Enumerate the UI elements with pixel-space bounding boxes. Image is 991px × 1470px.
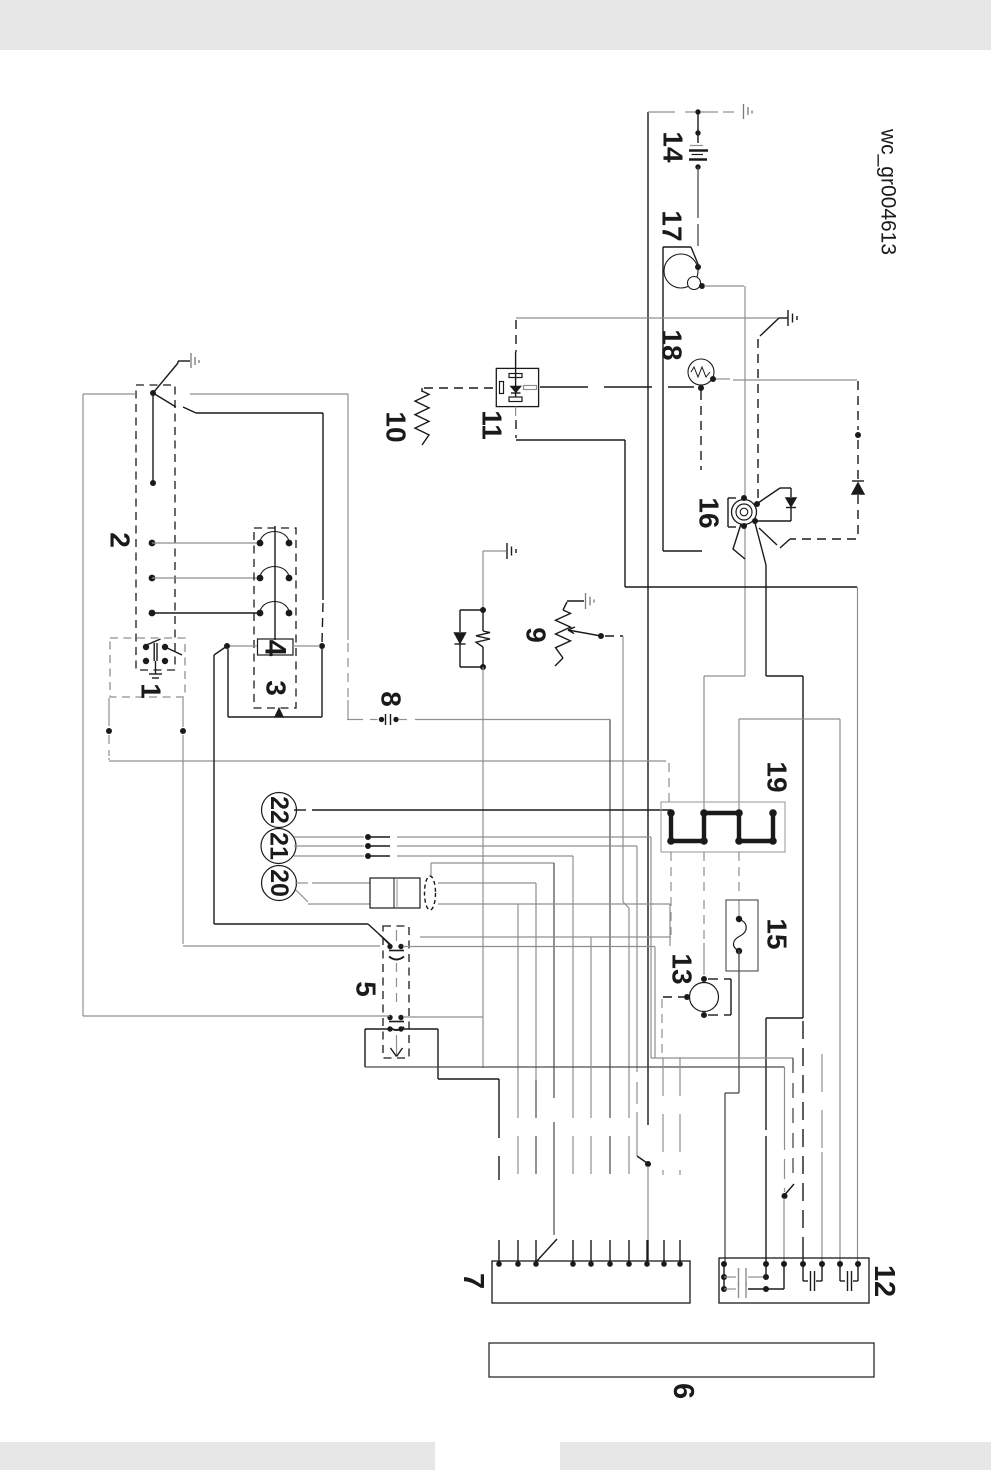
leads from igniter 16 (733, 524, 745, 559)
svg-text:12: 12 (868, 1265, 900, 1297)
wire: 19 to motor 13 (703, 900, 705, 940)
wire: row 937 drop to pin 591 (590, 937, 592, 1080)
bottom right footer bar (560, 1442, 991, 1470)
wire: 18 to right dashed diode branch (716, 378, 730, 380)
wire: dashed from ground switch down to igniter 16 (757, 339, 759, 499)
bracket below 3 (dashed with arrow) (227, 649, 229, 717)
wire: main vertical rail from battery node down to switch (647, 112, 649, 1125)
wire: gray rail jog to element 19 (704, 675, 745, 677)
wire: top rail to battery node (648, 111, 675, 113)
diode/resistor pair (480, 607, 486, 613)
motor 17 circles (664, 254, 698, 288)
ground mid left (506, 543, 508, 559)
svg-text:20: 20 (265, 869, 293, 897)
switch blade near 12 (785, 1184, 795, 1195)
arrow in 5 (396, 1035, 398, 1056)
sender 18 (688, 359, 714, 385)
blade to ground (153, 363, 178, 393)
svg-text:13: 13 (667, 953, 698, 984)
svg-text:15: 15 (762, 918, 793, 949)
bracket left of 16 (728, 497, 736, 499)
relay 1 contacts (143, 644, 149, 650)
svg-text:18: 18 (657, 329, 688, 360)
capacitor symbols right of 12 (802, 1264, 804, 1281)
wire: connector row y904 right (438, 903, 518, 905)
wire: relay 1 left leg down (108, 698, 110, 726)
flag on pin 535 (536, 1239, 557, 1262)
wire: dashed stub x822 to pin (821, 1054, 823, 1148)
wire: pair down to cap rows (482, 667, 484, 1068)
switch block 2 dashed box (136, 385, 175, 670)
svg-text:1: 1 (136, 683, 167, 699)
wire: y394 corner down to capacitor 8 (347, 394, 349, 640)
svg-text:16: 16 (694, 497, 725, 528)
thermostat 15 box (726, 900, 758, 971)
core line (274, 526, 276, 640)
ground for 9 (585, 593, 587, 609)
wire: row y413 to bracket (196, 412, 323, 414)
svg-text:22: 22 (265, 796, 293, 824)
switch blade near 7 (637, 1156, 647, 1163)
block 12 (719, 1258, 869, 1303)
svg-text:6: 6 (667, 1383, 699, 1399)
wire: row 846 corner down to switch (636, 846, 638, 1050)
wire: row y1030 (black) (365, 1028, 390, 1030)
wire: connector shield row y863 (430, 863, 432, 876)
terminal 20 (262, 866, 297, 901)
terminal 22 (262, 793, 297, 828)
capacitors in 12 (723, 1264, 725, 1289)
svg-text:5: 5 (351, 981, 382, 997)
wire: row y937 (420, 936, 671, 938)
wire: row y1058 (651, 1057, 793, 1059)
wire: connector row y883 right (438, 882, 536, 884)
coil windings (257, 540, 264, 547)
ground top left (178, 360, 190, 362)
pins of 12 (721, 1261, 727, 1267)
capacitor block 5 dashed box (383, 926, 409, 1058)
wire: branch dashed down to 12 (802, 1021, 804, 1238)
svg-text:3: 3 (261, 680, 292, 696)
svg-text:8: 8 (376, 691, 407, 707)
rows from 20 to connector (295, 882, 308, 884)
wire: long row y1067 (365, 1066, 785, 1068)
terminal strip 7 (492, 1261, 690, 1303)
ground with switch (right top) (787, 310, 789, 326)
svg-text:11: 11 (477, 410, 508, 440)
diode D (up) (852, 480, 864, 482)
motor 13 (690, 983, 719, 1012)
wire: 9 wiper to bus (605, 635, 623, 637)
wire: right rail down to block 12 (857, 587, 859, 1264)
rows from 21 (294, 836, 364, 838)
wire: bracket node down to capacitor 5 (224, 643, 230, 649)
wire: row y1067 corner down, switch (784, 1067, 786, 1130)
switch 2 common node (150, 390, 156, 396)
wire: capacitor 8 to bus (399, 719, 407, 721)
bottom left footer bar (0, 1442, 435, 1470)
element 19 meander (667, 809, 675, 817)
wire: drop to pin 680 (679, 1058, 681, 1175)
battery 14 (695, 109, 700, 114)
wire: long row y760 (108, 758, 110, 760)
switch 2 contact rows (149, 540, 156, 547)
wire: row 856 down to pin 573 (572, 856, 574, 1080)
capacitor 8 (347, 719, 363, 721)
switch in 5 (380, 935, 390, 945)
wire: jog to pin 499 (438, 1078, 499, 1080)
wire: module 11 bottom to long rail (515, 407, 517, 416)
wire from 17 to right rail (704, 285, 744, 287)
ground for battery 14 (743, 104, 745, 119)
wire: gray frame line y394 (83, 393, 136, 395)
module 11 (regulator) (496, 368, 538, 406)
igniter 16 rings (732, 500, 757, 525)
svg-text:21: 21 (265, 832, 293, 860)
capacitor in 5 (lower) (387, 1015, 392, 1020)
wire: row y904 extension (517, 903, 670, 905)
wiper arrow of 9 (568, 630, 601, 636)
wire: right gray rail down from 17 (744, 286, 746, 676)
wire: 15 down to block 12 (738, 950, 740, 1093)
wire: ground line row y318 (516, 317, 779, 319)
svg-text:17: 17 (657, 210, 688, 241)
wire: 13 dashed stub left, down to bus (663, 996, 684, 998)
svg-text:7: 7 (457, 1273, 489, 1289)
enclosure box for 17/18 (663, 246, 691, 248)
svg-text:4: 4 (259, 640, 292, 657)
wire: row 837 corner down (650, 837, 652, 1058)
svg-text:2: 2 (105, 532, 136, 548)
wire: module 11 top dashed up to ground line (515, 320, 517, 352)
diode branch (dashed) right side (857, 381, 859, 430)
svg-text:wc_gr004613: wc_gr004613 (877, 128, 900, 255)
wire: dashed drop and switch to pin 784 (792, 1058, 794, 1183)
wire: row y719 to block 12 wire (739, 718, 840, 720)
wire: row y1017 (83, 1015, 390, 1017)
potentiometer 9 (556, 610, 571, 658)
wire: row 22 (294, 809, 306, 811)
component 4 box (258, 639, 294, 655)
wire: 19 bottom right stub (738, 852, 740, 897)
top header bar (0, 0, 991, 50)
wire: battery node to ground (dashed) (701, 111, 718, 113)
wires through 19 (703, 852, 705, 897)
coil block 3 dashed box (254, 528, 296, 708)
wire: 18 bottom dashed down (700, 391, 702, 470)
svg-text:9: 9 (521, 627, 552, 643)
pins of 7 (496, 1261, 502, 1267)
connector plug (370, 878, 420, 908)
terminal strip 6 (489, 1343, 874, 1377)
svg-text:14: 14 (658, 131, 689, 163)
svg-text:10: 10 (381, 411, 412, 442)
resistor 10 (415, 391, 429, 445)
terminal 21 (261, 829, 296, 864)
wire: relay 1 right leg down (182, 698, 184, 727)
relay 1 dashed box (110, 638, 185, 697)
wire: resistor 10 to module 11 (dashed) (424, 387, 494, 389)
diode loop right of 16 (758, 488, 780, 503)
wire: igniter to black bus (path A) (755, 523, 766, 565)
element 19 outline box (661, 802, 785, 852)
wire: module 11 to sender 18 (dashed) (540, 386, 694, 388)
wire: row y946 right (403, 946, 655, 948)
blade to row (153, 393, 176, 407)
wire: row y946 to capacitor block 5 (183, 945, 380, 947)
svg-text:19: 19 (762, 761, 793, 792)
wire: drop to pin 664 (662, 1058, 664, 1175)
connector dashed ellipse (425, 876, 436, 910)
